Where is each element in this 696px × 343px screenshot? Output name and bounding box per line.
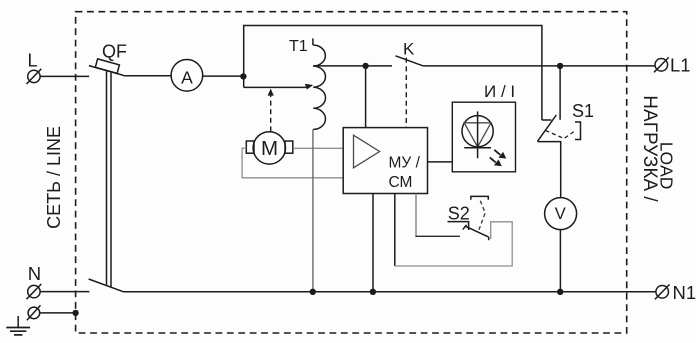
- svg-text:M: M: [261, 137, 278, 160]
- svg-text:N: N: [28, 263, 41, 284]
- svg-text:S1: S1: [572, 101, 594, 121]
- block И/I (indicator): [452, 82, 515, 172]
- svg-text:LOAD: LOAD: [657, 142, 677, 190]
- svg-text:МУ /: МУ /: [389, 154, 421, 171]
- dashed drive link M to wiper (arrow): [268, 89, 274, 132]
- K blade: [396, 56, 423, 66]
- LED emission arrow 2: [490, 157, 502, 166]
- wire MU/CM pin to N rail: [372, 194, 374, 292]
- svg-text:СЕТЬ / LINE: СЕТЬ / LINE: [44, 126, 64, 229]
- node: output junction: [557, 63, 563, 69]
- M brush right: [285, 141, 293, 153]
- S2 actuator bracket: [471, 196, 489, 199]
- terminal PE (ground): [27, 305, 41, 320]
- svg-text:СМ: СМ: [389, 174, 413, 191]
- wire N to QF: [40, 291, 89, 293]
- node: enclosure ground: [72, 310, 78, 316]
- QF blade (N pole): [89, 279, 124, 292]
- S2 blade: [466, 226, 489, 237]
- T1 winding arcs: [313, 45, 326, 129]
- svg-text:QF: QF: [102, 42, 127, 62]
- node: voltmeter on N rail: [557, 289, 563, 295]
- S2 blade barb: [463, 225, 467, 230]
- LED cathode bar: [464, 147, 491, 149]
- wire ammeter to node: [203, 75, 244, 77]
- switch S1 (bypass selector): [538, 66, 595, 198]
- motor M (servo drive): [246, 132, 292, 164]
- S1 actuator link (dashed): [546, 131, 576, 139]
- S1 blade: [538, 115, 557, 141]
- LED triangle: [464, 123, 491, 147]
- wire V to N rail: [559, 230, 561, 292]
- S2 top contact: [448, 222, 469, 230]
- wire K to L1: [423, 65, 655, 67]
- LED emission arrow 1: [494, 150, 506, 159]
- svg-text:S2: S2: [448, 204, 470, 224]
- ground symbol: [6, 316, 30, 335]
- LED circle: [462, 116, 493, 147]
- svg-text:L: L: [28, 51, 38, 71]
- switch S2 (limit/feedback contact): [395, 196, 512, 266]
- node: T1 output to control: [362, 63, 368, 69]
- contact K: [396, 40, 423, 128]
- wire node down to MU/CM: [365, 66, 367, 128]
- svg-text:V: V: [555, 205, 566, 223]
- gray wire MU/CM pin to S2 contact: [415, 194, 417, 237]
- svg-text:И / I: И / I: [484, 82, 515, 101]
- S1 fixed contact tick: [542, 119, 551, 121]
- breaker QF: [89, 42, 127, 292]
- terminal N: [27, 263, 42, 299]
- transformer T1 (autotransformer): [289, 38, 326, 129]
- wire: bypass feed (left edge, top edge, down to S1): [244, 26, 542, 121]
- svg-text:L1: L1: [670, 54, 691, 75]
- amplifier triangle: [354, 135, 380, 168]
- ammeter A: [171, 60, 203, 92]
- svg-text:T1: T1: [289, 38, 308, 55]
- node: T1 bottom on N rail: [310, 289, 316, 295]
- node: MU/CM on N rail: [370, 289, 376, 295]
- wire: wiper arm with arrow to T1: [244, 84, 314, 90]
- terminal L1: [654, 54, 691, 75]
- QF mechanical link (double lines): [106, 72, 108, 286]
- K control link (dashed): [405, 58, 407, 128]
- T1 top stub: [312, 38, 314, 45]
- QF body (tilted rectangle): [95, 59, 119, 74]
- S1 actuator bracket: [575, 122, 581, 140]
- node: wiper junction: [240, 73, 246, 79]
- gray return loop S2 to MU/CM: [395, 222, 512, 266]
- svg-text:N1: N1: [673, 282, 696, 303]
- S2 actuator link (dashed): [479, 200, 485, 230]
- voltmeter V: [545, 198, 577, 230]
- wire MU/CM pin to S2 loop: [394, 194, 396, 266]
- S2 blade end tick: [488, 237, 490, 240]
- terminal N1: [655, 282, 696, 303]
- wire T1 top tap to K: [313, 65, 392, 67]
- gray wire M right brush to MU/CM: [293, 147, 343, 149]
- N rail wire: [124, 291, 656, 293]
- QF blade (L pole): [89, 66, 124, 76]
- svg-text:A: A: [181, 67, 193, 87]
- enclosure (device boundary, dashed): [76, 12, 627, 333]
- wire L to QF: [40, 75, 89, 77]
- LED axis lead: [477, 111, 479, 158]
- S1 pole from output node: [559, 66, 561, 120]
- svg-text:K: K: [403, 40, 415, 59]
- M brush left: [246, 141, 254, 153]
- terminal L: [27, 51, 42, 85]
- gray wire M left brush to MU/CM: [242, 148, 343, 178]
- wire MU/CM to indicator: [428, 161, 453, 163]
- wire QF to ammeter: [124, 75, 172, 77]
- wire T1 bottom to N rail: [312, 129, 314, 291]
- wire ground terminal to enclosure: [40, 312, 76, 314]
- block MU/CM (control unit): [343, 128, 427, 194]
- S1 common wire: [538, 142, 561, 198]
